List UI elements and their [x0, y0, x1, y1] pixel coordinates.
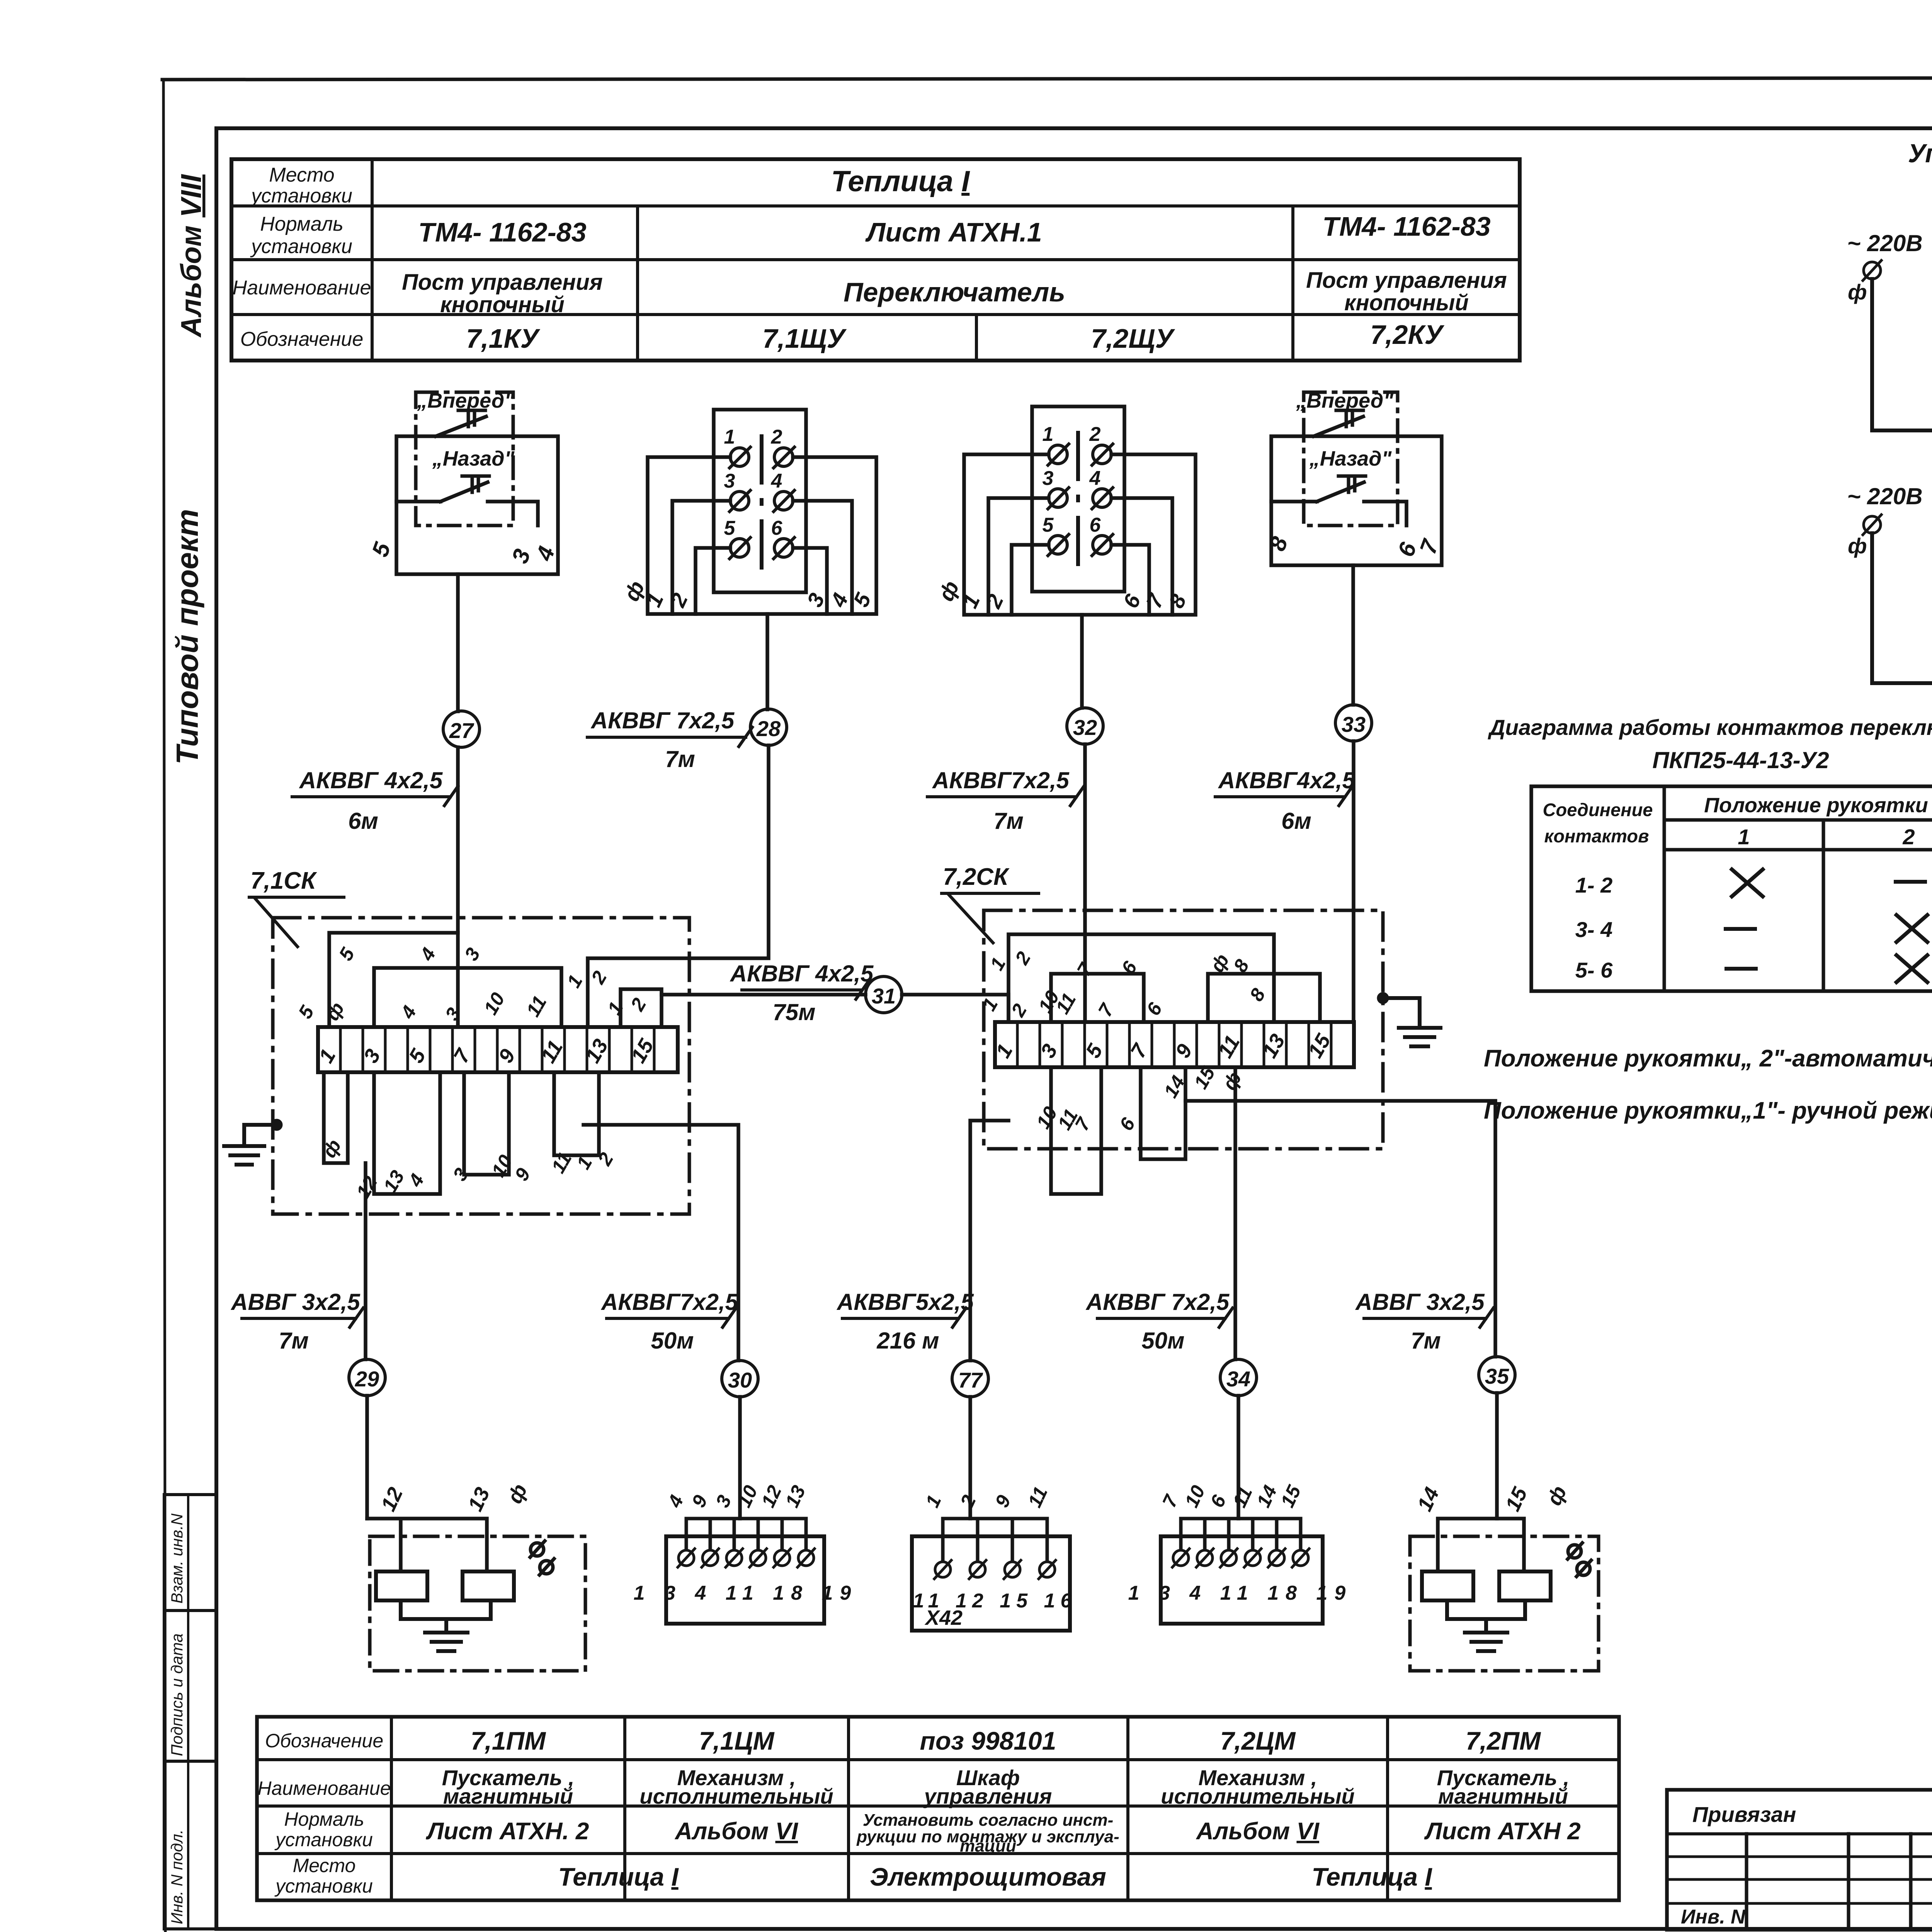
svg-text:1: 1: [1043, 423, 1054, 446]
svg-text:Х42: Х42: [924, 1606, 963, 1629]
X mark r2c2: [1896, 915, 1927, 942]
svg-text:12: 12: [757, 1482, 786, 1510]
svg-text:Теплица I: Теплица I: [558, 1862, 679, 1891]
sidebar box Взам.инв.N: [164, 1495, 216, 1611]
svg-text:7,2СК: 7,2СК: [943, 864, 1010, 890]
device5 coil A: [1422, 1571, 1473, 1600]
svg-text:Управление электроприводами: Управление электроприводами теплозащитно…: [1908, 139, 1932, 168]
wire from g1 to circle 27: [456, 574, 460, 711]
svg-text:„Вперед": „Вперед": [417, 389, 515, 412]
circle 35: [1479, 1357, 1515, 1393]
svg-text:32: 32: [1073, 715, 1097, 740]
switch shaft dashed: [1076, 433, 1080, 571]
svg-text:5: 5: [367, 539, 396, 560]
cable label AKVVG 7x2,5 7m mid: [927, 767, 1084, 834]
svg-text:установки: установки: [250, 235, 352, 258]
dev3 terminals: [934, 1560, 1056, 1579]
dash r2c1: [1726, 927, 1755, 931]
svg-text:1: 1: [957, 590, 985, 612]
svg-text:„Вперед": „Вперед": [1296, 389, 1394, 412]
svg-text:8: 8: [1264, 533, 1293, 554]
device1 ground: [425, 1633, 468, 1651]
junction box 7.2SK dash-dot: [984, 910, 1383, 1149]
svg-text:Наименование: Наименование: [257, 1777, 391, 1799]
svg-text:5- 6: 5- 6: [1575, 958, 1613, 982]
svg-text:Наименование: Наименование: [233, 277, 371, 299]
svg-text:Электрощитовая: Электрощитовая: [870, 1862, 1106, 1891]
svg-text:АКВВГ 7х2,5: АКВВГ 7х2,5: [1085, 1289, 1230, 1315]
contact table frame: [1531, 786, 1932, 991]
svg-text:АКВВГ5х2,5: АКВВГ5х2,5: [836, 1289, 974, 1315]
svg-text:поз 998101: поз 998101: [920, 1726, 1056, 1755]
svg-text:6: 6: [1206, 1492, 1230, 1511]
wire to circle 35: [1185, 1101, 1495, 1357]
7.2SK wiring loop upper right: [1208, 974, 1320, 1022]
svg-text:ф: ф: [1542, 1482, 1571, 1509]
cable label AVVG 3x2,5 7m right: [1355, 1289, 1493, 1354]
ground tap 7.1SK: [272, 1121, 281, 1129]
terminal block box dev3 X42: [912, 1536, 1070, 1631]
svg-text:5: 5: [1043, 514, 1054, 536]
svg-text:2: 2: [594, 1149, 618, 1169]
svg-text:Лист АТХН 2: Лист АТХН 2: [1424, 1818, 1581, 1845]
svg-text:11: 11: [547, 1149, 576, 1177]
svg-text:2: 2: [587, 967, 611, 988]
svg-text:2: 2: [626, 994, 651, 1015]
svg-text:исполнительный: исполнительный: [639, 1784, 833, 1808]
wire to circle 77: [970, 1121, 1009, 1361]
svg-text:Привязан: Привязан: [1692, 1802, 1796, 1827]
wiring loops g3: [964, 454, 1196, 615]
svg-text:Альбом VIII: Альбом VIII: [175, 174, 207, 338]
device1 coil B: [463, 1571, 514, 1600]
svg-text:АКВВГ 4х2,5: АКВВГ 4х2,5: [299, 767, 443, 793]
svg-text:7м: 7м: [1411, 1328, 1441, 1354]
feeder lower: [1872, 533, 1932, 683]
wire 33 to box 7.2SK: [1352, 741, 1355, 1022]
svg-text:7,2ЦМ: 7,2ЦМ: [1220, 1726, 1296, 1755]
svg-text:установки: установки: [274, 1875, 373, 1897]
svg-text:7,1КУ: 7,1КУ: [466, 323, 540, 354]
svg-text:34: 34: [1226, 1367, 1250, 1391]
7.2SK upper stub numbers: [978, 948, 1269, 1020]
svg-text:6: 6: [1115, 1114, 1139, 1134]
svg-text:77: 77: [958, 1368, 983, 1392]
svg-text:„Назад": „Назад": [432, 447, 515, 470]
7.2SK terminal strip: [995, 1022, 1354, 1067]
svg-text:Обозначение: Обозначение: [265, 1730, 383, 1752]
svg-text:Инв. N подл.: Инв. N подл.: [168, 1830, 186, 1924]
svg-text:15: 15: [1501, 1483, 1532, 1515]
svg-text:1: 1: [986, 954, 1010, 974]
contactor 7.2PM dash-dot box: [1410, 1536, 1599, 1671]
device5 phase terminals: [1568, 1545, 1581, 1558]
svg-text:управления: управления: [923, 1784, 1052, 1808]
device1 phase terminals: [531, 1543, 544, 1556]
svg-text:6: 6: [771, 517, 783, 539]
svg-text:исполнительный: исполнительный: [1161, 1784, 1354, 1808]
svg-text:31: 31: [872, 984, 896, 1008]
svg-text:Теплица I: Теплица I: [831, 165, 970, 198]
cable label AKVVG 4x2,5 6m right: [1215, 767, 1356, 834]
svg-text:11: 11: [522, 992, 551, 1020]
push-button post 7.1KU dash-dot box: [416, 392, 513, 526]
svg-text:7,1ЦМ: 7,1ЦМ: [699, 1726, 775, 1755]
7.2SK strip numbers: [991, 1030, 1335, 1062]
7.1SK wiring loop upper B: [374, 968, 561, 1027]
svg-text:1: 1: [641, 589, 668, 611]
svg-text:Диаграмма работы контактов: Диаграмма работы контактов переключателя: [1487, 715, 1932, 740]
svg-text:1: 1: [1738, 825, 1750, 849]
svg-text:14: 14: [1252, 1482, 1281, 1511]
svg-text:3: 3: [1043, 467, 1054, 490]
circle 31: [866, 976, 902, 1013]
svg-text:8: 8: [1164, 590, 1191, 612]
svg-text:4: 4: [416, 944, 440, 964]
button Nazad contact: [396, 482, 538, 526]
svg-text:2: 2: [1011, 948, 1035, 968]
svg-text:ф: ф: [1848, 280, 1867, 304]
svg-text:7: 7: [1094, 1000, 1118, 1020]
device5 coil B: [1499, 1571, 1551, 1600]
7.1SK wiring loop upper A: [329, 933, 458, 1027]
svg-text:Подпись и дата: Подпись и дата: [168, 1633, 186, 1756]
7.1SK wiring loop lower E: [374, 1072, 440, 1194]
svg-text:Лист АТХН.1: Лист АТХН.1: [865, 217, 1042, 247]
svg-text:ф: ф: [321, 998, 349, 1024]
wire 32 to box 7.2SK: [1083, 744, 1087, 1022]
svg-text:3: 3: [460, 944, 484, 964]
wire 28 to box 7.1SK: [588, 745, 769, 1027]
svg-text:2: 2: [771, 426, 782, 448]
cable label AKVVG7x2,5 50m: [600, 1289, 738, 1354]
7.1SK terminal strip: [318, 1027, 678, 1072]
7.2SK wiring loop upper mid: [1051, 974, 1144, 1022]
svg-text:ф: ф: [1218, 1068, 1246, 1094]
svg-text:тации: тации: [960, 1837, 1016, 1855]
circle 28: [750, 709, 787, 745]
svg-text:АКВВГ 4х2,5: АКВВГ 4х2,5: [730, 961, 874, 986]
svg-text:6м: 6м: [348, 808, 378, 834]
dev4 wires up: [1181, 1519, 1301, 1549]
svg-text:4: 4: [1089, 467, 1101, 490]
svg-text:Альбом VI: Альбом VI: [674, 1818, 799, 1845]
privyazan table frame: [1667, 1790, 1932, 1930]
terminal block box dev2: [666, 1536, 824, 1624]
svg-text:Инв. N: Инв. N: [1681, 1906, 1746, 1928]
sidebar box Инв.N подл.: [164, 1761, 216, 1929]
svg-text:контактов: контактов: [1544, 826, 1649, 846]
7.1SK wiring loop lower D: [324, 1072, 348, 1163]
svg-text:Место: Место: [269, 164, 334, 186]
svg-text:7: 7: [1071, 1114, 1095, 1134]
label 7.1SK: [249, 867, 344, 947]
svg-text:1: 1: [921, 1492, 946, 1511]
terminal numbers g3: [1043, 423, 1101, 536]
svg-text:216 м: 216 м: [876, 1328, 939, 1354]
7.1SK wiring loop upper C: [621, 989, 662, 1027]
terminal block box dev4: [1161, 1536, 1323, 1624]
wire from g2 to circle 28: [765, 614, 769, 709]
svg-text:9: 9: [687, 1492, 712, 1511]
svg-text:3- 4: 3- 4: [1575, 917, 1613, 942]
svg-text:Соединение: Соединение: [1543, 799, 1653, 820]
svg-text:3: 3: [711, 1492, 736, 1511]
wire from g3 to circle 32: [1080, 615, 1084, 708]
svg-text:5: 5: [335, 944, 359, 964]
svg-text:9: 9: [510, 1164, 534, 1184]
svg-text:12: 12: [376, 1484, 407, 1515]
dev3 upper pins: [921, 1483, 1052, 1511]
push-button post 7.1KU solid box: [396, 436, 558, 574]
svg-text:50м: 50м: [1141, 1328, 1184, 1354]
circle 33: [1335, 705, 1372, 741]
sheet outer left border: [163, 80, 165, 1932]
svg-text:2: 2: [1007, 1000, 1031, 1020]
svg-text:28: 28: [756, 716, 781, 741]
7.2SK wiring loop lower mid: [1141, 1067, 1185, 1159]
contactor 7.1PM dash-dot box: [370, 1536, 585, 1671]
circle 34: [1220, 1359, 1257, 1396]
7.1SK wiring loop lower G: [554, 1072, 599, 1155]
svg-text:ПКП25-44-13-У2: ПКП25-44-13-У2: [1652, 747, 1829, 773]
svg-text:7м: 7м: [279, 1328, 309, 1354]
svg-text:АКВВГ4х2,5: АКВВГ4х2,5: [1218, 767, 1355, 793]
svg-text:Положение рукоятки„ 2"-автомат: Положение рукоятки„ 2"-автоматический ре…: [1484, 1045, 1932, 1072]
svg-text:Нормаль: Нормаль: [284, 1808, 364, 1830]
svg-text:АКВВГ 7х2,5: АКВВГ 7х2,5: [590, 707, 735, 733]
junction box 7.1SK dash-dot: [273, 918, 689, 1214]
svg-text:7м: 7м: [993, 808, 1024, 834]
svg-text:8: 8: [1245, 985, 1269, 1005]
svg-text:2: 2: [1089, 423, 1101, 446]
sidebar box Подпись и дата: [164, 1611, 216, 1761]
svg-text:Установить согласно инст-: Установить согласно инст-: [863, 1811, 1114, 1830]
wire 30 to device2: [738, 1397, 742, 1519]
svg-text:7м: 7м: [665, 746, 695, 772]
svg-text:3: 3: [724, 470, 735, 492]
svg-text:кнопочный: кнопочный: [1344, 290, 1469, 315]
svg-text:2: 2: [981, 590, 1008, 612]
X mark r3c2: [1896, 955, 1927, 982]
7.2SK lower stub numbers: [1032, 1063, 1246, 1134]
terminals g2: [730, 447, 794, 559]
svg-text:Положение рукоятки„1"- ручной: Положение рукоятки„1"- ручной режим упра…: [1484, 1097, 1932, 1124]
svg-text:6: 6: [1142, 998, 1167, 1019]
switch 7.2SchU inner box: [1032, 406, 1124, 592]
svg-text:ф: ф: [1848, 534, 1867, 558]
7.2SK wiring loop upper wide: [1009, 934, 1274, 1022]
svg-text:1: 1: [563, 971, 587, 991]
device1 bottom tie: [401, 1600, 491, 1633]
svg-text:35: 35: [1485, 1364, 1509, 1388]
svg-text:33: 33: [1342, 712, 1366, 736]
bottom pin numbers g3: [934, 577, 1191, 612]
svg-text:4: 4: [663, 1492, 688, 1511]
svg-text:1 3 4 11 18 19: 1 3 4 11 18 19: [1128, 1582, 1353, 1604]
svg-text:ф: ф: [503, 1480, 532, 1507]
label 7.2SK: [942, 864, 1039, 943]
button Nazad contact g4: [1271, 482, 1406, 526]
svg-text:7,2ПМ: 7,2ПМ: [1466, 1726, 1541, 1755]
svg-text:Переключатель: Переключатель: [844, 277, 1065, 307]
wire from g4 to circle 33: [1351, 565, 1355, 705]
device5 ground: [1465, 1633, 1507, 1651]
svg-text:1- 2: 1- 2: [1575, 873, 1613, 897]
svg-text:5: 5: [294, 1002, 318, 1022]
svg-text:АВВГ 3х2,5: АВВГ 3х2,5: [230, 1289, 361, 1315]
svg-text:4: 4: [531, 543, 560, 564]
svg-text:13: 13: [379, 1167, 408, 1196]
svg-text:АКВВГ7х2,5: АКВВГ7х2,5: [932, 767, 1070, 793]
svg-text:1: 1: [724, 426, 735, 448]
wire to circle 30: [583, 1125, 738, 1361]
svg-text:Пост управления: Пост управления: [402, 270, 603, 295]
X mark r1c1: [1732, 869, 1763, 896]
svg-text:2: 2: [665, 589, 692, 611]
svg-text:6м: 6м: [1281, 808, 1311, 834]
svg-text:50м: 50м: [651, 1328, 694, 1354]
cable label AVVG 3x2,5 7m: [230, 1289, 363, 1354]
svg-text:7: 7: [1158, 1491, 1182, 1511]
svg-text:АКВВГ7х2,5: АКВВГ7х2,5: [600, 1289, 738, 1315]
svg-text:Типовой проект: Типовой проект: [170, 509, 204, 764]
sheet outer top border: [162, 77, 1932, 80]
svg-text:Положение рукоятки: Положение рукоятки: [1704, 794, 1928, 817]
svg-text:1: 1: [603, 998, 627, 1018]
svg-text:3: 3: [441, 1004, 465, 1024]
cable label AKVVG 4x2,5 75M: [730, 961, 874, 1025]
wire 77 to device3: [968, 1397, 972, 1519]
terminals g3: [1048, 444, 1113, 556]
circle 29: [349, 1359, 385, 1396]
dev4 terminals: [1172, 1549, 1309, 1567]
svg-text:Обозначение: Обозначение: [240, 328, 364, 350]
svg-text:1 3 4 11 18 19: 1 3 4 11 18 19: [634, 1582, 858, 1604]
75M cable entry: [902, 995, 1009, 1022]
svg-text:Нормаль: Нормаль: [260, 213, 343, 235]
svg-text:Лист АТХН. 2: Лист АТХН. 2: [426, 1818, 589, 1845]
cable label AKVVG 7x2,5 50m: [1085, 1289, 1233, 1354]
cable label AKVVG5x2,5 216m: [836, 1289, 974, 1354]
svg-text:7,2ЩУ: 7,2ЩУ: [1091, 323, 1175, 354]
bottom equipment table: [257, 1717, 1619, 1900]
svg-text:кнопочный: кнопочный: [440, 292, 565, 317]
svg-text:магнитный: магнитный: [443, 1784, 573, 1808]
svg-text:4: 4: [396, 1002, 421, 1022]
wiring loops g2: [648, 457, 876, 614]
circle 77: [952, 1361, 988, 1397]
dev3 wires up: [943, 1519, 1047, 1561]
svg-text:7,1ЩУ: 7,1ЩУ: [762, 323, 847, 354]
svg-text:75м: 75м: [772, 999, 815, 1025]
svg-text:Теплица I: Теплица I: [1311, 1862, 1432, 1891]
svg-text:29: 29: [355, 1367, 379, 1391]
svg-text:10: 10: [480, 989, 509, 1018]
button Vpered contact: [436, 417, 486, 436]
svg-text:~ 220В: ~ 220В: [1847, 483, 1922, 509]
svg-text:9: 9: [991, 1492, 1015, 1511]
svg-text:13: 13: [463, 1484, 494, 1515]
dev2 upper pins: [663, 1482, 810, 1511]
svg-text:27: 27: [449, 718, 474, 743]
button Vpered contact g4: [1314, 417, 1363, 436]
device1 coil A: [376, 1571, 427, 1600]
svg-text:3: 3: [507, 546, 535, 566]
sidebar divider: [187, 1495, 189, 1929]
feeder upper: [1872, 279, 1932, 430]
dash r3c1: [1726, 967, 1756, 971]
ground tap 7.2SK: [1379, 994, 1387, 1002]
svg-text:7,2КУ: 7,2КУ: [1370, 320, 1444, 350]
wire 34 to device4: [1236, 1396, 1240, 1519]
svg-text:30: 30: [728, 1368, 752, 1392]
svg-text:Место: Место: [293, 1855, 356, 1876]
svg-text:12: 12: [352, 1172, 381, 1202]
svg-text:Взам. инв.N: Взам. инв.N: [168, 1513, 186, 1604]
wire 35 to device5: [1495, 1393, 1499, 1519]
svg-text:4: 4: [771, 470, 782, 492]
bottom pin numbers g2: [619, 577, 876, 611]
device1 feed split: [367, 1519, 487, 1571]
svg-text:7,1СК: 7,1СК: [250, 867, 317, 894]
7.1SK wiring loop lower F: [464, 1072, 509, 1175]
svg-text:~ 220В: ~ 220В: [1847, 230, 1922, 256]
svg-text:3: 3: [449, 1164, 473, 1184]
7.2SK wiring loop lower left: [1051, 1067, 1101, 1194]
dash r1c2: [1896, 880, 1925, 884]
svg-text:установки: установки: [250, 185, 352, 207]
svg-text:ТМ4- 1162-83: ТМ4- 1162-83: [1322, 211, 1490, 241]
svg-text:АВВГ 3х2,5: АВВГ 3х2,5: [1355, 1289, 1485, 1315]
switch 7.1SchU inner box: [714, 410, 806, 592]
svg-text:10: 10: [733, 1482, 762, 1510]
svg-text:10: 10: [1180, 1482, 1209, 1510]
svg-text:11: 11: [1024, 1483, 1052, 1511]
dev2 terminals: [678, 1549, 815, 1567]
svg-text:магнитный: магнитный: [1438, 1784, 1568, 1808]
top-left table frame: [231, 159, 1520, 361]
svg-text:2: 2: [1902, 825, 1915, 849]
svg-text:2: 2: [956, 1492, 980, 1511]
svg-text:ТМ4- 1162-83: ТМ4- 1162-83: [418, 217, 586, 247]
7.1SK strip numbers: [314, 1035, 658, 1067]
svg-text:„Назад": „Назад": [1309, 447, 1392, 470]
cable label AKVVG 4x2,5 6m: [292, 767, 458, 834]
svg-text:11: 11: [1228, 1483, 1257, 1511]
dev4 upper pins: [1158, 1481, 1305, 1510]
terminal numbers g2: [724, 426, 783, 539]
svg-text:14: 14: [1413, 1484, 1444, 1515]
wire 29 to device1: [365, 1396, 369, 1519]
svg-text:13: 13: [781, 1482, 810, 1510]
svg-text:1: 1: [978, 994, 1002, 1014]
circle 32: [1067, 708, 1103, 744]
svg-text:7,1ПМ: 7,1ПМ: [471, 1726, 546, 1755]
7.1SK upper stub numbers: [294, 944, 650, 1024]
dev2 wires up: [686, 1519, 806, 1549]
wire to circle 34: [1233, 1067, 1237, 1359]
wire to circle 31: [662, 993, 866, 997]
cable label AKVVG 7x2,5 7M: [587, 707, 752, 772]
svg-text:Альбом VI: Альбом VI: [1196, 1818, 1320, 1845]
push-button post 7.2KU solid box: [1271, 436, 1442, 565]
svg-text:5: 5: [724, 517, 736, 539]
wire to circle 29: [364, 1163, 367, 1359]
wire 27 to box 7.1SK: [456, 747, 460, 1027]
switch shaft dashed: [760, 436, 764, 572]
svg-text:Пост управления: Пост управления: [1306, 268, 1507, 293]
